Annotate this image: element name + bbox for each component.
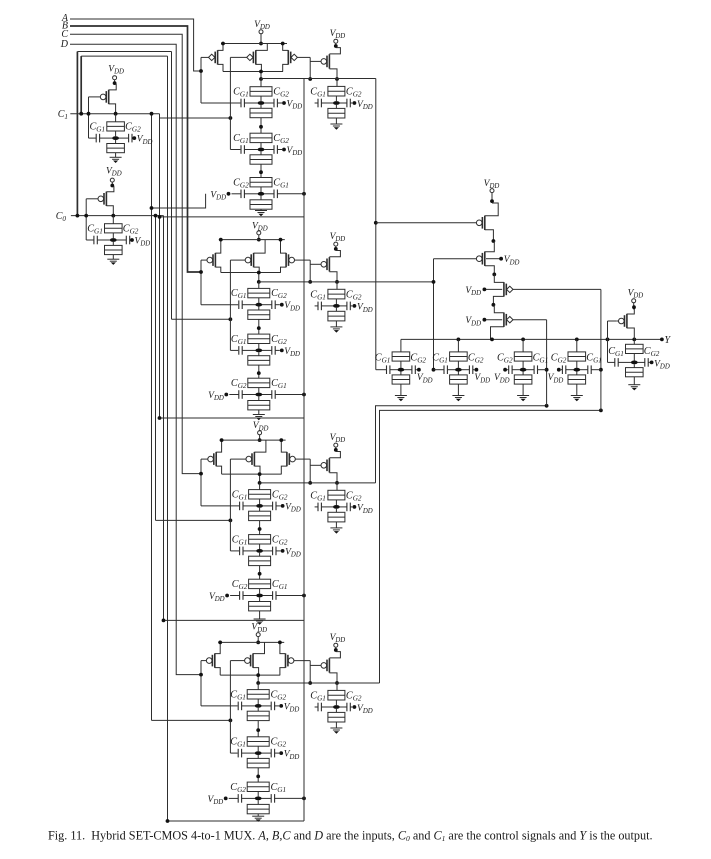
tunnel junction K2a: [450, 352, 468, 368]
wire block2 buffer gate tie: [308, 260, 312, 284]
pmos T3: [493, 274, 601, 304]
capacitor CG2 block2 buffer: [340, 289, 362, 310]
wire block4 top rail: [218, 641, 284, 643]
island C0: [110, 238, 117, 242]
capacitor CG1 outcell4: [580, 353, 602, 374]
capacitor CG2 outcell1: [404, 353, 426, 374]
tunnel junction J14a: [328, 79, 345, 101]
island block2 buffer: [333, 304, 340, 308]
vdd tap block2 set3: [208, 391, 228, 402]
wire block3 drain rail: [222, 473, 282, 475]
input label B: [62, 21, 68, 32]
capacitor CG1 outcell3: [526, 353, 548, 374]
wire block1 out stem: [259, 70, 263, 81]
tunnel junction K4b: [568, 372, 586, 396]
island C1: [112, 136, 119, 140]
wire C0 gate/cap vertical: [86, 199, 94, 240]
vdd tap C1: [132, 135, 152, 146]
capacitor CG2 block2 set1: [262, 288, 287, 309]
wire block1 gate vert B: [230, 57, 240, 149]
wire outcell1 stem: [400, 339, 402, 352]
svg-text:Fig. 11. Hybrid SET-CMOS 4-to: Fig. 11. Hybrid SET-CMOS 4-to-1 MUX. A, …: [48, 829, 653, 844]
vdd tap outcell3: [494, 368, 510, 385]
ground block3 buffer: [330, 528, 342, 534]
vdd tap T4: [465, 316, 502, 327]
vdd tap block1 set3: [210, 190, 230, 201]
island block1 set1: [258, 101, 265, 105]
wire block1 set3 right: [277, 192, 306, 196]
tunnel junction J24a: [328, 282, 345, 304]
tunnel junction J13a: [250, 178, 272, 193]
capacitor CG1 block2 set2: [231, 334, 256, 355]
wire block4 out stem: [256, 673, 260, 685]
pmos Q3b: [230, 440, 266, 474]
capacitor CG1 block1 set2: [233, 133, 258, 154]
tunnel junction J22a: [248, 334, 270, 349]
wire block1 top rail: [221, 43, 287, 45]
island block2 set1: [255, 303, 262, 307]
ground outcell3: [517, 396, 529, 402]
node block2 buffer drain: [335, 280, 339, 284]
vdd tap outcell2: [474, 368, 490, 385]
node T2-T3: [492, 273, 496, 277]
tunnel junction K5a: [626, 339, 644, 360]
vdd tap block1 set1: [277, 100, 302, 111]
node T1-T2: [492, 239, 496, 243]
ground outcell1: [395, 396, 407, 402]
wire block1 gate vert A: [199, 57, 240, 103]
wire block3 tick2: [156, 519, 231, 521]
tunnel junction J34b: [328, 509, 345, 528]
wire block2 under: [158, 416, 304, 420]
vdd terminal block3 buffer: [330, 433, 346, 452]
tunnel junction J33a: [249, 579, 271, 594]
capacitor CG2 block1 buffer: [340, 87, 362, 108]
vdd terminal output stage: [484, 179, 500, 203]
tunnel junction J23b: [248, 396, 270, 414]
pmos Q1a: [201, 42, 225, 72]
pmos Q2c: [279, 238, 311, 273]
svg-text:D: D: [60, 39, 69, 50]
capacitor CG2 outcell3: [497, 353, 520, 374]
tunnel junction J11b: [250, 105, 272, 133]
pmos Q1d: [310, 48, 340, 79]
wire block3 under: [162, 619, 304, 623]
node dots C1 row: [79, 112, 153, 116]
tunnel junction C1 bottom: [107, 140, 125, 157]
pmos Q3d: [310, 452, 340, 483]
island outcell2: [455, 368, 462, 372]
capacitor CG1 block4 buffer: [310, 691, 333, 712]
vdd tap T2: [486, 255, 520, 266]
wire block1 output: [261, 78, 376, 80]
wire net block4-out path: [380, 409, 603, 684]
wire inverter input: [608, 321, 617, 362]
ground block2: [253, 415, 265, 421]
wire net block1-out vertical: [374, 79, 378, 370]
wire block4 under: [166, 819, 304, 823]
wire block3 set stem1: [259, 483, 261, 490]
wire block3 set3 right: [276, 594, 306, 598]
wire block4 set3 right: [275, 797, 306, 801]
pmos T4: [491, 305, 547, 340]
capacitor CG1 block4 set1: [230, 689, 255, 710]
capacitor CG2 block4 set2: [261, 737, 286, 758]
tunnel junction J32b: [249, 553, 271, 580]
input label A: [61, 13, 69, 24]
pmos Q2b: [230, 240, 265, 273]
vdd tap T3: [465, 286, 502, 297]
tunnel junction J43a: [247, 782, 269, 797]
wire block4 tick2: [152, 719, 231, 721]
island block2 set2: [255, 349, 262, 353]
pmos Q4c: [278, 641, 310, 676]
capacitor CG2 block4 buffer: [340, 691, 362, 712]
wire block2 gate vert A: [199, 260, 238, 305]
wire C1 gate/cap vertical: [89, 97, 97, 138]
wire input A: [70, 19, 201, 71]
tunnel junction J21b: [248, 307, 270, 335]
island block4 set3: [255, 797, 262, 801]
capacitor CG2 outcell4: [551, 353, 574, 374]
node block1 buffer drain: [335, 77, 339, 81]
wire block2 set3 right: [275, 393, 306, 397]
ground block4 buffer: [330, 728, 342, 734]
wire C1bar bus: [151, 114, 153, 721]
vdd terminal C1 cell: [108, 65, 124, 86]
tunnel junction J43b: [247, 800, 269, 816]
capacitor CG2 C0: [117, 224, 139, 245]
capacitor CG1 block3 set1: [232, 489, 257, 510]
tunnel junction J13b: [250, 196, 272, 211]
tunnel junction J12a: [250, 133, 272, 148]
wire block3 out stem: [258, 472, 262, 485]
output terminal Y: [660, 335, 672, 346]
vdd tap block4 set3: [208, 795, 228, 806]
tunnel junction J24b: [328, 308, 345, 327]
tunnel junction K3a: [514, 352, 532, 368]
wire outcell4 stem: [576, 339, 578, 352]
pmos Q2a: [201, 238, 223, 273]
node C0 row dots: [84, 214, 115, 218]
capacitor CG2 block2 set2: [262, 334, 287, 355]
wire block2 set stem1: [258, 282, 260, 289]
vdd terminal block4 buffer: [330, 633, 346, 652]
vdd terminal block3: [253, 421, 269, 442]
node dot tick2 b4: [229, 719, 233, 723]
ground inverter: [628, 385, 640, 391]
tunnel junction J33b: [249, 597, 271, 619]
wire net block3-out path: [376, 404, 549, 483]
capacitor CG1 inverter: [608, 346, 631, 367]
vdd tap block1 set2: [277, 146, 302, 157]
capacitor CG2 block3 set3: [230, 579, 256, 600]
vdd terminal block2: [252, 221, 268, 241]
node dot tick2 b1: [229, 116, 233, 120]
pmos load C1 cell: [89, 84, 117, 114]
island block1 set3: [258, 192, 265, 196]
pmos Q4d: [310, 652, 340, 683]
ground C1 cell: [110, 157, 122, 163]
capacitor CG1 C1: [90, 122, 113, 143]
wire block4 gate vert A: [199, 661, 238, 706]
capacitor CG1 block1 set3: [264, 177, 289, 198]
wire block1 buffer gate tie: [308, 57, 312, 81]
wire block3 output: [260, 482, 376, 484]
wire block3 gate vert A: [199, 459, 239, 506]
input label C: [61, 29, 68, 40]
tunnel junction J23a: [248, 378, 270, 393]
tunnel junction C0 top: [105, 216, 123, 239]
pmos Q4a: [201, 641, 222, 676]
capacitor CG1 outcell1: [375, 353, 398, 374]
wire input D: [70, 44, 201, 674]
control label C1: [58, 109, 68, 121]
tunnel junction J41a: [247, 690, 269, 705]
vdd tap block4 set1: [275, 702, 300, 713]
capacitor CG1 outcell2: [432, 353, 455, 374]
vdd tap inverter: [650, 359, 670, 370]
island block4 buffer: [333, 705, 340, 709]
node C1 row dots: [87, 112, 118, 116]
capacitor CG2 block3 buffer: [340, 490, 362, 511]
wire under block1 aux: [152, 194, 206, 208]
node dot tick2 b2: [229, 317, 233, 321]
wire C1 row: [70, 113, 159, 115]
wire block2 drain rail: [221, 272, 281, 274]
pmos Q3a: [201, 438, 224, 474]
wire outcell3 stem: [522, 339, 524, 352]
pmos T1: [376, 203, 498, 241]
wire block3 buffer gate tie: [308, 459, 312, 485]
capacitor CG1 block2 buffer: [310, 289, 333, 310]
vdd tap block4 buffer: [353, 704, 373, 715]
vdd tap block1 buffer: [353, 100, 373, 111]
tunnel junction J41b: [247, 708, 269, 737]
tunnel junction K4a: [568, 352, 586, 368]
wire block1 tick2: [160, 117, 231, 119]
vdd tap block4 set2: [275, 750, 300, 761]
ground block2 buffer: [330, 327, 342, 333]
island block3 set1: [256, 504, 263, 508]
node block4 buffer drain: [335, 681, 339, 685]
island block4 set1: [255, 704, 262, 708]
node dots output rail: [457, 338, 637, 342]
wire C0bar bus: [155, 216, 157, 521]
capacitor CG2 block3 set1: [263, 489, 288, 510]
island block3 set3: [256, 594, 263, 598]
island outcell4: [573, 368, 580, 372]
vdd terminal inverter: [628, 289, 644, 310]
wire block3 top rail: [220, 439, 286, 441]
pmos Q1b: [230, 44, 267, 72]
capacitor CG2 block4 set3: [229, 782, 255, 803]
capacitor CG1 C0: [87, 224, 110, 245]
capacitor CG2 block1 set3: [232, 177, 258, 198]
pmos T5: [616, 309, 634, 339]
island inverter: [631, 361, 638, 365]
island outcell3: [520, 368, 527, 372]
capacitor CG2 block1 set1: [264, 87, 289, 108]
wire input C: [70, 34, 201, 473]
wire block4 output: [258, 682, 379, 684]
capacitor CG1 block4 set3: [261, 782, 286, 803]
wire block2 top rail: [219, 239, 285, 241]
pmos Q1c: [281, 42, 310, 72]
node T3-T4: [492, 303, 496, 307]
node dot aux b1: [150, 206, 154, 210]
wire Q right rail: [303, 79, 305, 821]
caption: [48, 829, 653, 844]
island block3 set2: [256, 549, 263, 553]
capacitor CG2 block1 set2: [264, 133, 289, 154]
island block3 buffer: [333, 505, 340, 509]
vdd tap block3 set2: [276, 547, 301, 558]
tunnel junction J42b: [247, 755, 269, 782]
island outcell1: [398, 368, 405, 372]
tunnel junction J12b: [250, 151, 272, 177]
vdd tap outcell1: [417, 368, 433, 385]
capacitor CG1 block1 buffer: [310, 87, 333, 108]
wire net block2-out vertical: [432, 259, 436, 372]
wire block2 out stem: [257, 271, 261, 284]
wire r2 bus: [163, 216, 165, 621]
tunnel junction J14b: [328, 105, 345, 124]
wire block1 under: [158, 215, 304, 219]
tunnel junction K1a: [392, 352, 410, 368]
island block1 set2: [258, 148, 265, 152]
vdd terminal C0 cell: [106, 166, 122, 187]
wire block4 drain rail: [220, 674, 280, 676]
wire C0 row: [71, 215, 164, 217]
vdd terminal block1 buffer: [330, 29, 346, 48]
wire block4 buffer gate tie: [308, 661, 312, 685]
island block4 set2: [255, 751, 262, 755]
ground block4: [252, 816, 264, 822]
wire block4 gate vert B: [230, 661, 237, 754]
vdd tap C0: [130, 237, 150, 248]
tunnel junction J31b: [249, 508, 271, 535]
capacitor CG1 block3 set2: [232, 534, 257, 555]
tunnel junction J21a: [248, 288, 270, 303]
capacitor CG1 block4 set2: [230, 737, 255, 758]
capacitor CG2 inverter: [638, 346, 660, 367]
wire block2 output: [259, 281, 434, 283]
tunnel junction J44b: [328, 709, 345, 728]
capacitor CG1 block3 set3: [263, 579, 288, 600]
vdd tap block3 set3: [209, 592, 229, 603]
tunnel junction J22b: [248, 352, 270, 378]
vdd tap block2 set1: [275, 301, 300, 312]
control label C0: [56, 211, 67, 223]
capacitor CG2 block3 set2: [263, 534, 288, 555]
tunnel junction K5b: [626, 364, 644, 385]
wire outcell2 stem: [457, 339, 459, 352]
ground outcell4: [571, 396, 583, 402]
tunnel junction J11a: [250, 87, 272, 102]
input label D: [60, 39, 69, 50]
island block2 set3: [255, 393, 262, 397]
capacitor CG1 block1 set1: [233, 87, 258, 108]
wire net t3gate vertical: [599, 289, 603, 410]
wire net t4gate vertical: [545, 320, 549, 406]
capacitor CG1 block2 set1: [231, 288, 256, 309]
capacitor CG2 block4 set1: [261, 689, 286, 710]
wire input B (thick): [70, 26, 201, 272]
pmos Q3c: [279, 438, 310, 474]
tunnel junction K2b: [450, 372, 468, 396]
tunnel junction J34a: [328, 483, 345, 505]
node block3 buffer drain: [335, 481, 339, 485]
tunnel junction J31a: [249, 490, 271, 505]
ground C0 cell: [107, 259, 119, 265]
vdd tap block3 buffer: [353, 504, 373, 515]
wire C1 loop upper: [81, 56, 167, 114]
wire block1 set stem1: [260, 79, 262, 87]
capacitor CG1 block2 set3: [262, 378, 287, 399]
capacitor CG2 C1: [119, 122, 141, 143]
vdd tap outcell4: [548, 368, 564, 385]
island block1 buffer: [333, 101, 340, 105]
wire block2 gate vert B: [230, 260, 238, 350]
wire block3 gate vert B: [230, 459, 239, 551]
pmos load C0 cell: [86, 186, 114, 216]
vdd tap block3 set1: [276, 502, 301, 513]
wire block4 set stem1: [257, 683, 259, 690]
tunnel junction J32a: [249, 535, 271, 550]
tunnel junction C1 top: [107, 114, 125, 137]
wire block1 drain rail: [223, 71, 283, 73]
tunnel junction J44a: [328, 683, 345, 705]
ground block1: [255, 211, 267, 217]
wire output rail: [401, 338, 662, 340]
ground block3: [254, 619, 266, 625]
pmos T2: [434, 241, 495, 274]
tunnel junction C0 bottom: [105, 242, 123, 259]
tunnel junction J42a: [247, 737, 269, 752]
tunnel junction K1b: [392, 372, 410, 396]
node dots C0 row: [76, 214, 158, 218]
vdd tap block2 buffer: [353, 303, 373, 314]
vdd terminal block2 buffer: [330, 232, 346, 251]
ground outcell2: [452, 396, 464, 402]
capacitor CG2 outcell2: [462, 353, 484, 374]
vdd tap block2 set2: [275, 347, 300, 358]
wire C1 bus down: [167, 56, 169, 821]
vdd terminal block4: [251, 623, 267, 645]
capacitor CG1 block3 buffer: [310, 490, 333, 511]
capacitor CG2 block2 set3: [229, 378, 255, 399]
wire r1 bus: [159, 114, 161, 418]
ground block1 buffer: [330, 124, 342, 130]
tunnel junction K3b: [514, 372, 532, 396]
wire C0 loop upper: [77, 52, 230, 320]
vdd terminal block1: [254, 20, 270, 46]
node dot tick2 b3: [229, 519, 233, 523]
pmos Q4b: [230, 642, 264, 675]
pmos Q2d: [310, 251, 340, 282]
